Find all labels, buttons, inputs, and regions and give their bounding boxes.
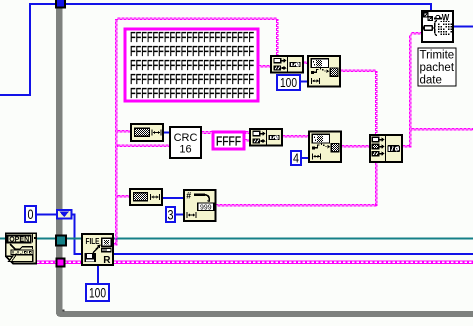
wire: teal refnum across bottom <box>0 238 473 240</box>
constant: 100 (Read File count) <box>86 284 109 301</box>
node: Open File (OPEN) <box>6 233 37 263</box>
constant: large FF... string constant (5 rows of F) <box>125 29 258 102</box>
label: Trimite pachet date <box>418 48 456 87</box>
node: To-Decimal String (# -> 999) <box>184 190 216 221</box>
wire: branch to String Length 1 (string) <box>117 130 131 132</box>
svg-text:Trimite: Trimite <box>420 50 455 62</box>
node: String Subset 1 <box>308 56 340 87</box>
wire: CRC16 output (passes behind FFFF constant) to node input (string) <box>201 132 250 134</box>
svg-text:999: 999 <box>200 202 212 211</box>
svg-text:3: 3 <box>168 207 174 222</box>
wire: concat B output up to Trimite VI input and branch to right edge (string) <box>402 32 422 147</box>
wire: String Length 2 output to To-Decimal <box>162 197 184 199</box>
wire: Read File data string up left side, across top, down into concat A top input (string) <box>113 18 278 245</box>
svg-text:#: # <box>186 190 191 200</box>
wire: To-Decimal output right and up to concat B bottom input (string) <box>215 162 377 206</box>
node: CRC 16 subVI <box>170 127 201 158</box>
constant: FFFF string (CRC seed) <box>213 132 244 149</box>
svg-text:16: 16 <box>179 144 191 156</box>
wire: numeric blue from left edge up and across top to Trimite VI <box>0 4 431 95</box>
wire: String Subset 1 output down to concat B top input (string) <box>340 70 377 135</box>
node: String Length 1 <box>131 124 163 141</box>
tunnel: teal refnum tunnel on left border <box>56 236 66 246</box>
wire: branch of packet string to right edge (string) <box>411 128 473 130</box>
node: hex-join A (above, fed by big FF constant) <box>271 56 303 73</box>
constant: 3 (To-Decimal width) <box>166 207 175 222</box>
svg-text:date: date <box>420 75 442 87</box>
svg-text:FILE: FILE <box>86 237 100 246</box>
node: hex-join C (three inputs, output to Trimite) <box>370 135 402 162</box>
wire: fat magenta string wire across bottom with white dashes <box>35 261 473 264</box>
tunnel: magenta string tunnel on left border <box>57 259 65 267</box>
wire: String Subset 2 output to concat B middle input (string) <box>341 145 370 147</box>
wire: branch to CRC16 string input (string) <box>117 145 170 147</box>
node: Trimite pachet date subVI icon (phone + W + dotted block) <box>422 11 453 42</box>
node: String Subset 2 <box>309 132 341 163</box>
svg-text:FFFFFFFFFFFFFFFFFFFFFF: FFFFFFFFFFFFFFFFFFFFFF <box>130 85 254 102</box>
svg-text:CRC: CRC <box>174 132 198 144</box>
node: hex-join B (fed by CRC16 and FFFF) <box>250 129 282 146</box>
constant: 4 (String Subset 2 length) <box>291 151 301 166</box>
svg-text:FFFF: FFFF <box>216 134 241 149</box>
wire: 100 constant to String Subset 1 length input <box>300 81 308 83</box>
wire: shift register down to Read File pos input, then long blue to right edge <box>72 215 473 255</box>
svg-text:OPEN: OPEN <box>9 235 29 244</box>
shift register left terminal (down arrow) <box>57 210 72 219</box>
wire: FFFF constant output to node lower input (string) <box>244 139 250 141</box>
constant: 100 (String Subset 1 length) <box>277 75 300 90</box>
svg-text:100: 100 <box>280 75 297 90</box>
svg-text:4: 4 <box>293 151 299 166</box>
svg-text:0: 0 <box>28 206 34 222</box>
svg-text:R: R <box>103 255 111 266</box>
wire: concat A output to String Subset 1 (string) <box>303 62 308 64</box>
wire: 4 constant to String Subset 2 length input <box>301 157 309 159</box>
wire: String Length 1 output (I32) to CRC16 <box>163 132 170 134</box>
svg-text:pachet: pachet <box>420 62 455 74</box>
wire: Read File count from 100 constant below <box>97 264 99 284</box>
wire: FF string constant output to concat A lower input (string) <box>258 65 271 67</box>
node: String Length 2 <box>130 189 162 205</box>
tunnel: blue numeric tunnel on top border <box>56 0 65 8</box>
wire: blue output of Trimite VI to right edge <box>453 26 473 28</box>
node: Read File (FILE R) <box>82 234 113 266</box>
wire: hex node output to String Subset 2 (string) <box>282 135 309 137</box>
wire: branch to String Length 2 (string) <box>117 195 130 197</box>
constant: 0 (shift register init) <box>25 206 36 222</box>
svg-text:100: 100 <box>89 285 106 300</box>
wire: 0 constant to shift register <box>36 214 56 216</box>
wire: 3 constant to To-Decimal width input <box>175 214 185 216</box>
